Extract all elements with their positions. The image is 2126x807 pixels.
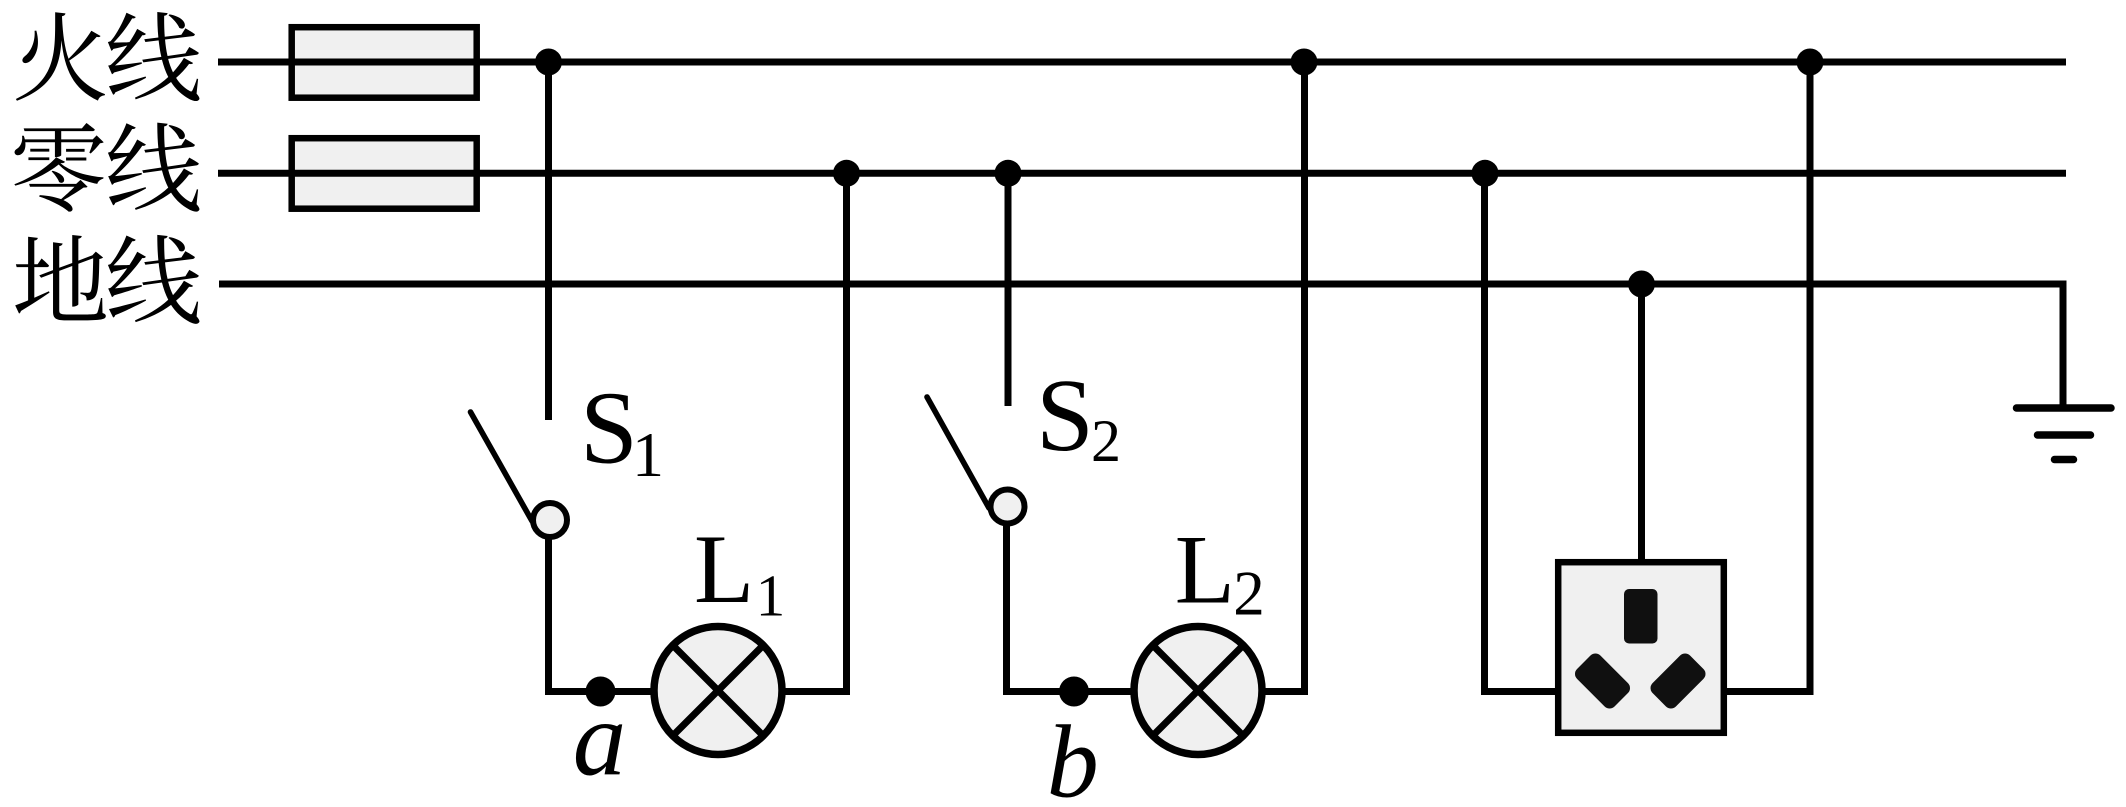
svg-text:a: a: [573, 681, 627, 799]
svg-text:L: L: [694, 515, 754, 624]
label S2: [1036, 358, 1121, 474]
svg-text:2: 2: [1091, 408, 1121, 474]
label neutral-wire text char 线: [108, 123, 200, 212]
node b dot: [1059, 677, 1089, 707]
label neutral-wire text char 零: [14, 123, 103, 212]
socket body: [1558, 562, 1724, 733]
wire S1 to node a: [549, 538, 655, 692]
svg-text:L: L: [1175, 516, 1235, 625]
label live-wire text char 线: [108, 12, 200, 101]
switch S1 contact: [533, 503, 567, 537]
wire neutral to S2: [1005, 173, 1012, 406]
wire earth bus: [219, 284, 2063, 407]
label live-wire text char 火: [16, 12, 105, 100]
junction neutral/socket-left: [1472, 160, 1499, 187]
socket neutral pin: [1572, 651, 1633, 712]
wire L2 to live: [1262, 62, 1305, 692]
switch S2 contact: [991, 490, 1025, 524]
node a dot: [586, 677, 616, 707]
ground symbol: [2017, 408, 2112, 460]
junction live/S1: [535, 49, 562, 76]
lamp L2: [1134, 627, 1262, 755]
junction live/L2-return: [1291, 49, 1318, 76]
wire live to S1: [545, 62, 552, 420]
svg-text:b: b: [1047, 705, 1099, 807]
junction neutral/S2: [995, 160, 1022, 187]
label S1: [580, 371, 664, 490]
fuse F1 on live wire: [292, 27, 477, 98]
wire S2 to node b: [1007, 525, 1135, 692]
svg-text:S: S: [1036, 358, 1094, 473]
wire earth to socket top: [1638, 284, 1645, 562]
junction live/socket-right: [1797, 49, 1824, 76]
label L2: [1175, 516, 1265, 629]
socket earth pin: [1624, 589, 1658, 644]
label L1: [694, 515, 785, 629]
wire live bus: [218, 59, 2066, 66]
junction earth/socket-pin: [1628, 271, 1655, 298]
switch S2 lever: [927, 397, 989, 508]
label earth-wire text char 线: [108, 235, 200, 324]
fuse F2 on neutral wire: [292, 138, 477, 209]
switch S1 lever: [471, 412, 533, 521]
wire neutral bus: [218, 170, 2066, 177]
wire live to socket right: [1724, 62, 1810, 692]
wire L1 to neutral: [782, 173, 847, 691]
svg-text:2: 2: [1233, 559, 1265, 629]
svg-text:1: 1: [632, 419, 664, 490]
label earth-wire text char 地: [15, 235, 106, 320]
wire neutral to socket left: [1485, 173, 1559, 691]
svg-text:1: 1: [756, 563, 786, 629]
svg-text:S: S: [580, 371, 638, 486]
junction neutral/L1-return: [833, 160, 860, 187]
socket live pin: [1648, 651, 1709, 712]
lamp L1: [654, 627, 782, 755]
